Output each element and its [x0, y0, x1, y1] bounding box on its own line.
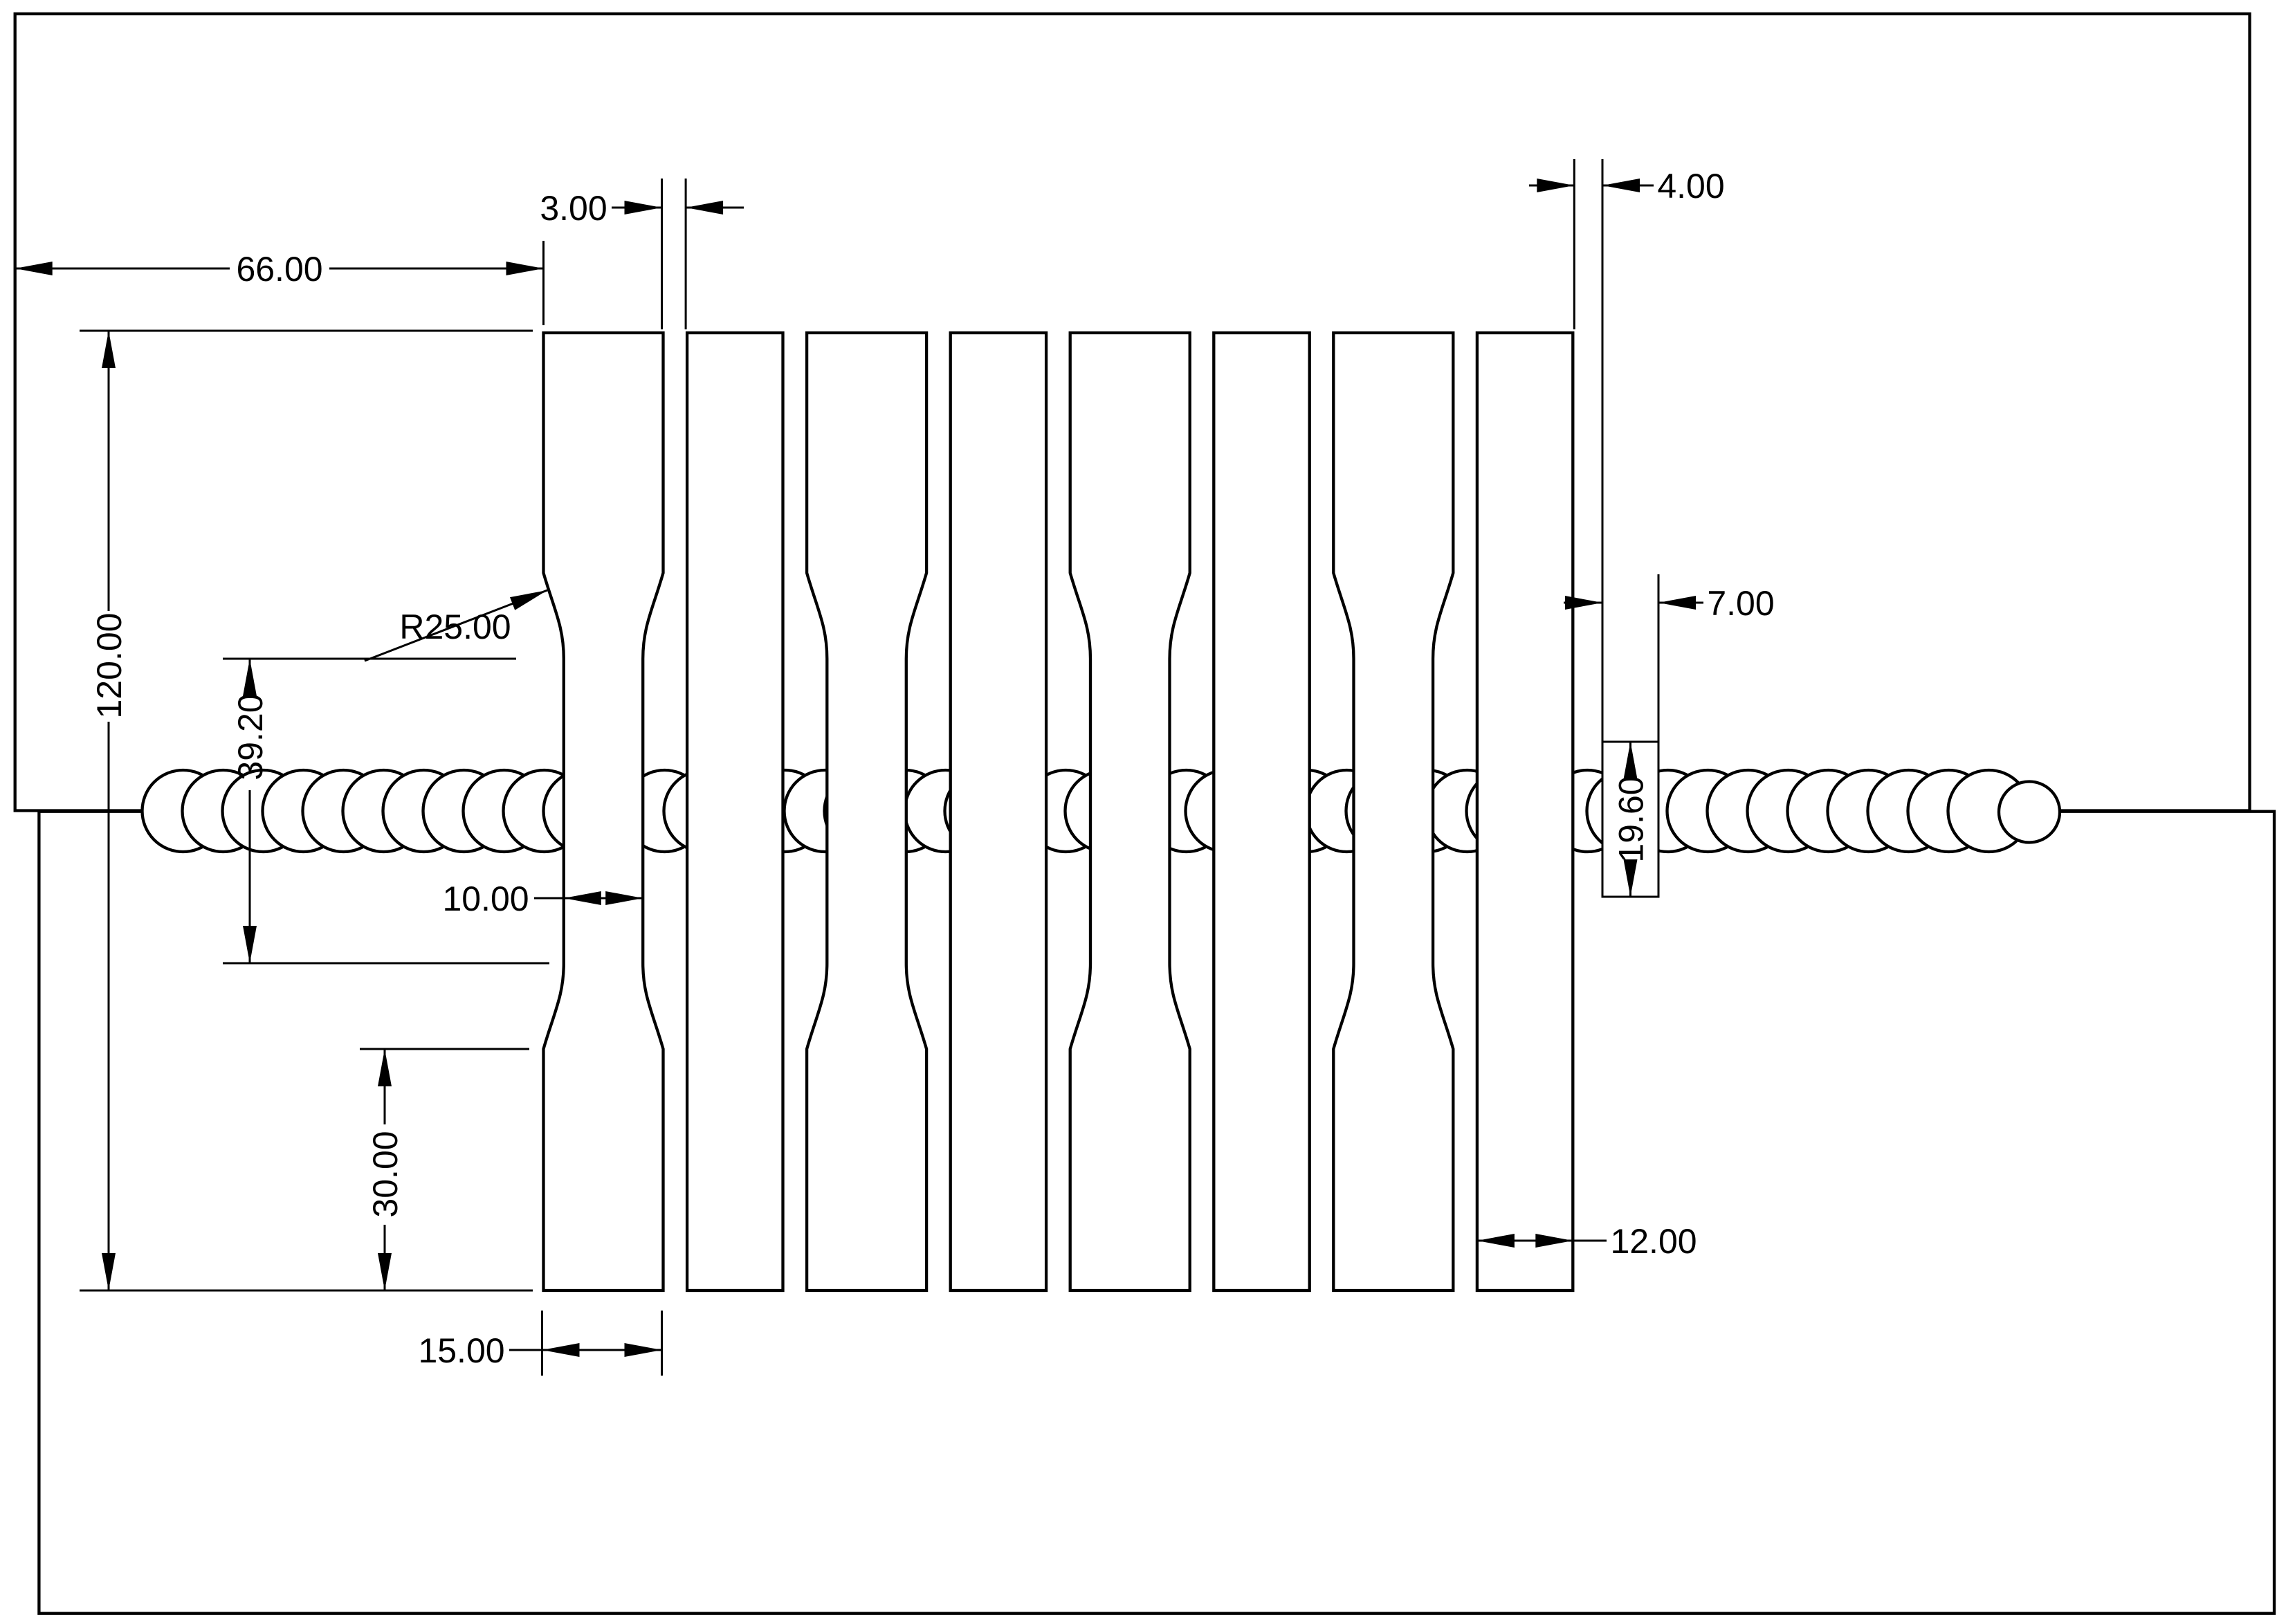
svg-text:19.60: 19.60 — [1612, 776, 1651, 862]
svg-text:12.00: 12.00 — [1610, 1222, 1697, 1261]
svg-text:10.00: 10.00 — [442, 879, 529, 918]
svg-text:R25.00: R25.00 — [399, 608, 511, 646]
svg-text:120.00: 120.00 — [90, 613, 129, 719]
svg-text:30.00: 30.00 — [366, 1131, 405, 1217]
svg-text:66.00: 66.00 — [236, 250, 322, 289]
svg-text:3.00: 3.00 — [540, 189, 607, 228]
svg-text:4.00: 4.00 — [1657, 167, 1724, 206]
svg-text:15.00: 15.00 — [418, 1331, 504, 1370]
svg-text:39.20: 39.20 — [231, 693, 270, 780]
svg-text:7.00: 7.00 — [1707, 584, 1774, 623]
